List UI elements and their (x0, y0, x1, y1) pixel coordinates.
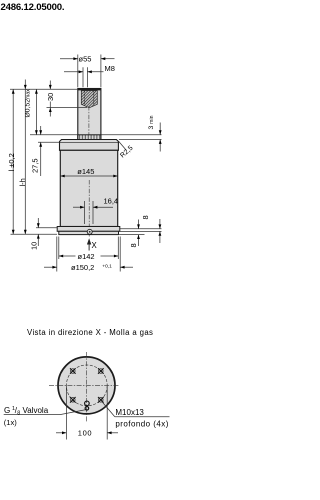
svg-text:profondo (4x): profondo (4x) (115, 420, 168, 429)
rod collar tick band (78, 135, 101, 140)
dim rod protrusion (rotated note) (25, 89, 38, 135)
dim ø55 (60, 55, 115, 88)
base ring lower band (59, 231, 119, 234)
dim ø142 (59, 252, 119, 261)
dim ø145 (60, 167, 117, 178)
svg-text:M8: M8 (105, 64, 115, 73)
svg-text:3 min: 3 min (148, 115, 155, 129)
dim l ±0,2 overall (7, 89, 16, 234)
dim ø150,2 +0,1 (44, 263, 133, 272)
leader M10x13 profondo (102, 402, 170, 429)
svg-text:100: 100 (78, 428, 92, 437)
svg-text:ø145: ø145 (77, 167, 94, 176)
svg-text:10: 10 (29, 242, 38, 250)
dim 27,5 (30, 126, 42, 176)
svg-text:16,4: 16,4 (104, 197, 119, 206)
dim 16,4 (73, 197, 118, 224)
hole M10 SE (98, 397, 104, 403)
bottom view base circle ø150 (58, 357, 115, 414)
body tube (60, 150, 117, 226)
svg-text:l-h: l-h (18, 178, 27, 186)
svg-text:G: G (4, 406, 10, 415)
svg-text:M10x13: M10x13 (115, 408, 144, 417)
threaded hole M8 section (81, 91, 97, 108)
svg-text:+0,1: +0,1 (102, 263, 112, 269)
svg-text:Valvola: Valvola (23, 406, 49, 415)
hole M10 SW (70, 397, 76, 403)
extension lines below base (56, 237, 58, 272)
svg-text:30: 30 (46, 93, 55, 101)
svg-text:27,5: 27,5 (30, 158, 39, 173)
extension lines base right (120, 228, 162, 230)
body centerline (88, 180, 90, 237)
extension lines base left (36, 227, 57, 229)
view arrow X (87, 238, 98, 250)
svg-text:8: 8 (17, 410, 20, 416)
leader G1/8 valvola (4, 406, 86, 427)
dim 30 (thread depth) (46, 81, 55, 117)
svg-text:8: 8 (141, 215, 150, 219)
extension line rod top (10, 88, 77, 90)
bolt circle (66, 365, 107, 406)
svg-text:2486.12.05000.: 2486.12.05000. (1, 2, 65, 13)
extension line cap line left (38, 141, 59, 143)
svg-text:ø142: ø142 (78, 252, 95, 261)
body cap (60, 140, 119, 151)
hole M10 NW (70, 368, 76, 374)
dim 8 upper right (141, 215, 161, 243)
svg-text:ø55: ø55 (79, 55, 92, 64)
label R2,5 (119, 141, 135, 159)
valve on base (87, 229, 92, 234)
rod (piston rod) (78, 89, 101, 140)
hole M10 NE (98, 368, 104, 374)
base ring upper band (57, 227, 120, 232)
svg-text:ø150,2: ø150,2 (71, 263, 94, 272)
svg-text:(1x): (1x) (4, 418, 18, 427)
extension line collar top left (30, 134, 77, 136)
svg-text:Vista in direzione X - Molla a: Vista in direzione X - Molla a gas (27, 328, 153, 337)
dim 3 min right (102, 115, 162, 151)
dim 10 left (29, 218, 39, 250)
svg-text:8: 8 (129, 243, 138, 247)
dim 100 bottom (56, 386, 118, 439)
valve bottom view (85, 401, 90, 410)
svg-text:l ±0,2: l ±0,2 (7, 153, 16, 171)
dim M8 (64, 64, 115, 87)
rod centerline (88, 106, 90, 136)
extension line thread bottom (47, 107, 88, 109)
dim 8 lower right (129, 220, 140, 248)
dim l-h (18, 80, 27, 235)
svg-text:X: X (92, 241, 98, 250)
bottom view crosshair centerlines (49, 384, 119, 386)
